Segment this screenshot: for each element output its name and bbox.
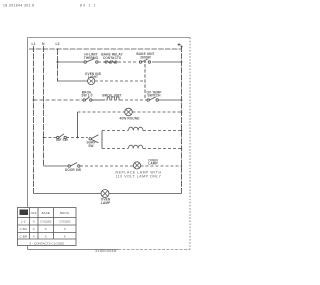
svg-text:X: X — [45, 234, 47, 238]
svg-text:CONTACTS: CONTACTS — [103, 56, 121, 60]
svg-text:CYCLES: CYCLES — [40, 220, 51, 224]
svg-text:C-BA: C-BA — [20, 227, 28, 231]
svg-text:THERMO: THERMO — [84, 56, 99, 60]
svg-text:C-BR: C-BR — [20, 234, 28, 238]
svg-text:SWITCH: SWITCH — [147, 94, 161, 98]
svg-text:X: X — [64, 234, 66, 238]
svg-text:DOOR SW: DOOR SW — [65, 168, 81, 172]
svg-text:LAMP: LAMP — [101, 201, 111, 205]
svg-text:X: X — [33, 234, 35, 238]
svg-text:BROIL UNIT: BROIL UNIT — [102, 94, 121, 98]
svg-text:SW: SW — [88, 144, 93, 148]
svg-text:L2: L2 — [56, 42, 60, 46]
svg-text:OFF: OFF — [31, 211, 37, 215]
svg-text:L1: L1 — [32, 42, 36, 46]
svg-text:SW 1-3: SW 1-3 — [81, 94, 92, 98]
svg-text:40W ROUND: 40W ROUND — [119, 116, 140, 120]
svg-text:X: X — [64, 227, 66, 231]
svg-text:84 1 1: 84 1 1 — [80, 4, 97, 8]
svg-text:INF SW: INF SW — [56, 138, 68, 142]
svg-text:X: X — [33, 227, 35, 231]
svg-text:N: N — [42, 42, 45, 46]
svg-text:X: X — [33, 220, 35, 224]
svg-text:CYCLES: CYCLES — [59, 220, 70, 224]
svg-text:LIGHT: LIGHT — [88, 75, 98, 79]
svg-text:LAMP: LAMP — [148, 162, 158, 166]
svg-text:18 301844 301 8: 18 301844 301 8 — [3, 4, 34, 8]
svg-text:BROIL: BROIL — [60, 211, 70, 215]
svg-text:110 VOLT LAMP ONLY: 110 VOLT LAMP ONLY — [116, 174, 162, 178]
svg-text:2600W: 2600W — [140, 55, 151, 59]
svg-text:BAKE: BAKE — [42, 211, 50, 215]
svg-text:1-2: 1-2 — [21, 220, 26, 224]
svg-text:31600444A: 31600444A — [95, 249, 117, 253]
svg-text:X: X — [45, 227, 47, 231]
svg-text:X - CONTACTS CLOSED: X - CONTACTS CLOSED — [29, 241, 65, 245]
